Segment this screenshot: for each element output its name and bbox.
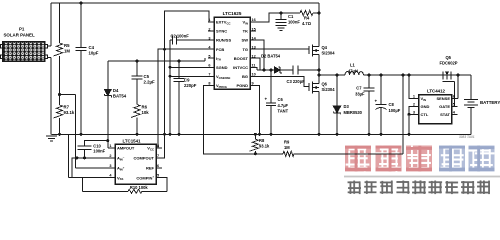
svg-text:2.2µF: 2.2µF — [144, 80, 155, 85]
svg-text:BOOST: BOOST — [234, 56, 249, 61]
svg-text:BG: BG — [242, 74, 248, 79]
svg-text:SENSE: SENSE — [436, 96, 450, 101]
svg-text:LTC1625: LTC1625 — [223, 11, 242, 16]
svg-text:4.7Ω: 4.7Ω — [302, 21, 312, 26]
svg-text:D4: D4 — [113, 88, 119, 93]
svg-text:L1: L1 — [350, 63, 356, 68]
svg-text:SGND: SGND — [216, 65, 228, 70]
svg-text:3: 3 — [208, 36, 210, 40]
svg-text:C10: C10 — [93, 143, 101, 148]
svg-text:13: 13 — [252, 45, 256, 49]
svg-text:+: + — [265, 97, 268, 102]
svg-text:R10 100k: R10 100k — [130, 185, 148, 190]
svg-text:SOLAR PANEL: SOLAR PANEL — [4, 33, 35, 38]
svg-text:Si2304: Si2304 — [322, 87, 336, 92]
svg-text:6: 6 — [453, 95, 455, 99]
svg-text:2: 2 — [413, 103, 415, 107]
svg-text:+: + — [375, 99, 378, 104]
svg-text:GATE: GATE — [439, 104, 450, 109]
svg-text:C7: C7 — [356, 86, 362, 91]
svg-text:5: 5 — [208, 54, 210, 58]
svg-text:2: 2 — [208, 27, 210, 31]
svg-text:D3: D3 — [344, 104, 350, 109]
svg-text:FDC602P: FDC602P — [440, 61, 458, 66]
svg-text:COMPIN+: COMPIN+ — [136, 175, 154, 181]
svg-text:4.7µF: 4.7µF — [278, 103, 289, 108]
svg-text:1: 1 — [109, 144, 111, 148]
svg-text:100nF: 100nF — [93, 149, 105, 154]
svg-text:C4: C4 — [89, 45, 95, 50]
svg-text:100µF: 100µF — [389, 108, 401, 113]
svg-text:BATTERY: BATTERY — [480, 100, 500, 105]
svg-text:100nF: 100nF — [288, 20, 300, 25]
svg-text:1: 1 — [413, 95, 415, 99]
svg-text:C5: C5 — [144, 74, 150, 79]
svg-text:FCB: FCB — [216, 47, 224, 52]
svg-text:7: 7 — [157, 154, 159, 158]
svg-text:3: 3 — [109, 164, 111, 168]
svg-text:D2 BAT54: D2 BAT54 — [261, 54, 281, 59]
svg-text:11: 11 — [252, 64, 256, 68]
svg-text:10k: 10k — [142, 110, 150, 115]
svg-text:220pF: 220pF — [184, 83, 197, 88]
svg-text:R6: R6 — [142, 105, 148, 110]
svg-text:3: 3 — [413, 110, 415, 114]
svg-text:Si2304: Si2304 — [322, 51, 336, 56]
svg-text:R9: R9 — [284, 140, 290, 145]
svg-text:33µF: 33µF — [355, 92, 365, 97]
svg-text:R4: R4 — [304, 16, 310, 21]
svg-text:COMPOUT: COMPOUT — [134, 156, 155, 161]
svg-text:7: 7 — [208, 73, 210, 77]
svg-text:STAT: STAT — [440, 112, 450, 117]
svg-text:LTC1541: LTC1541 — [123, 139, 142, 144]
svg-text:93.1k: 93.1k — [259, 144, 270, 149]
svg-text:SW: SW — [242, 38, 249, 43]
svg-text:2: 2 — [109, 154, 111, 158]
svg-text:TK: TK — [243, 29, 248, 34]
svg-text:C9: C9 — [184, 78, 190, 83]
svg-text:Q6: Q6 — [322, 82, 328, 87]
svg-text:8: 8 — [157, 144, 159, 148]
svg-text:SYNC: SYNC — [216, 29, 227, 34]
svg-text:Q4: Q4 — [322, 45, 328, 50]
svg-text:Q5: Q5 — [446, 55, 452, 60]
svg-text:6: 6 — [208, 64, 210, 68]
svg-text:C6: C6 — [278, 97, 284, 102]
svg-text:1M: 1M — [64, 49, 70, 54]
svg-text:REF: REF — [146, 165, 155, 170]
svg-text:C2 100nF: C2 100nF — [171, 34, 190, 39]
svg-text:R8: R8 — [259, 138, 265, 143]
svg-text:5: 5 — [157, 174, 159, 178]
svg-text:9: 9 — [252, 82, 254, 86]
svg-text:12: 12 — [252, 54, 256, 58]
svg-text:10: 10 — [252, 73, 256, 77]
svg-text:1M: 1M — [284, 145, 290, 150]
svg-text:RUN/SS: RUN/SS — [216, 38, 231, 43]
svg-text:16: 16 — [252, 18, 256, 22]
svg-text:C1: C1 — [288, 14, 294, 19]
svg-text:5: 5 — [453, 103, 455, 107]
svg-text:93.1k: 93.1k — [64, 110, 75, 115]
svg-text:3083 TA01: 3083 TA01 — [459, 135, 475, 139]
svg-text:15: 15 — [252, 27, 256, 31]
svg-text:6: 6 — [157, 164, 159, 168]
svg-text:C3 220pF: C3 220pF — [287, 79, 306, 84]
svg-text:8: 8 — [208, 82, 210, 86]
svg-text:R5: R5 — [64, 43, 70, 48]
svg-text:LTC4412: LTC4412 — [427, 89, 446, 94]
svg-text:C8: C8 — [389, 102, 395, 107]
svg-text:GND: GND — [421, 104, 430, 109]
svg-text:47µH: 47µH — [348, 68, 358, 73]
svg-text:INTVCC: INTVCC — [233, 65, 248, 70]
svg-text:MBR0530: MBR0530 — [344, 110, 363, 115]
svg-text:R7: R7 — [64, 105, 70, 110]
svg-text:TG: TG — [242, 47, 248, 52]
svg-text:CTL: CTL — [421, 112, 429, 117]
svg-text:BAT54: BAT54 — [113, 94, 127, 99]
svg-text:AMPOUT: AMPOUT — [117, 146, 135, 151]
svg-text:PGND: PGND — [236, 83, 248, 88]
svg-text:TANT: TANT — [278, 109, 289, 114]
svg-text:P1: P1 — [19, 27, 25, 32]
svg-text:10µF: 10µF — [89, 51, 99, 56]
